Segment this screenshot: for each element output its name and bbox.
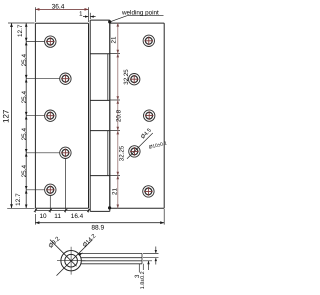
dim 1 line with outside arrows: [83, 16, 96, 18]
svg-text:20.8: 20.8: [116, 109, 123, 122]
svg-text:21: 21: [111, 36, 118, 43]
dim 36.4 arrows: [35, 8, 88, 11]
hole L3: [45, 110, 56, 121]
welding point leader: [110, 16, 164, 22]
hole row centerline 5: [26, 189, 44, 191]
svg-text:12.7: 12.7: [15, 193, 22, 206]
svg-text:welding point: welding point: [121, 9, 159, 16]
knuckle division 2: [90, 99, 110, 101]
knuckle segment 4 inset edge: [107, 131, 109, 176]
svg-text:11: 11: [54, 213, 61, 220]
bottom chain extension lines: [35, 159, 88, 213]
side leaf line top: [78, 252, 142, 254]
svg-text:32.25: 32.25: [123, 69, 130, 85]
svg-text:1.8±0.2: 1.8±0.2: [140, 271, 146, 289]
dim 36.4 line: [35, 8, 88, 10]
svg-text:21: 21: [112, 188, 119, 195]
svg-text:25.4: 25.4: [21, 91, 28, 104]
svg-text:88.9: 88.9: [91, 224, 104, 231]
dim 88.9 arrows: [35, 221, 164, 224]
hole L1: [45, 36, 56, 47]
knuckle division 4: [90, 175, 110, 177]
svg-text:127: 127: [2, 109, 11, 123]
hole row centerline 1: [26, 41, 44, 43]
dim 88.9 line: [35, 222, 164, 224]
hole row centerline 3: [26, 115, 44, 117]
hole L2: [60, 73, 71, 84]
hole row centerline 4: [26, 152, 60, 154]
hole R5: [143, 186, 154, 197]
side dim extension lines: [143, 253, 159, 260]
hole R3: [144, 110, 155, 121]
dim 1 extension: [89, 13, 91, 19]
dia 9.2 leader diagonal: [50, 240, 77, 267]
svg-text:25.4: 25.4: [21, 54, 28, 67]
left leaf: [35, 23, 88, 208]
right chain extension stubs: [110, 54, 120, 176]
knuckle division 3: [90, 130, 110, 132]
left chain arrows and ticks: [25, 23, 28, 208]
hole R1: [143, 35, 154, 46]
side leaf line second: [81, 257, 142, 259]
dia 14.2 leader arrow: [78, 253, 83, 257]
right chain dimension line: [117, 23, 119, 209]
hole R2: [129, 74, 140, 85]
hole L5: [45, 184, 56, 195]
side dim 3 line: [155, 247, 157, 265]
knuckle segment 2 inset edge: [107, 54, 109, 100]
dim 36.4 extension lines: [35, 7, 88, 22]
svg-text:36.4: 36.4: [52, 3, 65, 10]
side leaf line bottom: [81, 263, 142, 265]
svg-text:16.4: 16.4: [71, 213, 84, 220]
dim 127 extension lines: [7, 23, 34, 208]
side dim leader stubs: [139, 264, 143, 273]
side view inner circle: [65, 254, 78, 267]
left chain dimension line: [25, 23, 27, 208]
side dim 1.8 line: [148, 261, 150, 270]
right leaf: [110, 23, 164, 208]
svg-text:25.4: 25.4: [21, 165, 28, 178]
hole R4 with leader: [129, 146, 140, 157]
bottom chain dimension line: [35, 209, 88, 211]
knuckle barrel outline: [90, 20, 110, 211]
dim 127 line: [11, 23, 13, 208]
svg-text:12.7: 12.7: [17, 24, 24, 37]
svg-text:10: 10: [39, 213, 47, 220]
bottom chain ticks: [34, 209, 90, 212]
right chain arrows: [117, 23, 120, 209]
welding dot top: [108, 20, 111, 23]
hole L4: [60, 147, 71, 158]
dia 14.2 leader diagonal: [57, 240, 93, 276]
dim 88.9 extension lines: [35, 209, 164, 225]
svg-text:32.25: 32.25: [118, 145, 125, 161]
side view outer circle: [61, 251, 81, 271]
side leaf line third: [81, 260, 142, 262]
dim 127 arrows: [10, 23, 13, 208]
welding dot bottom: [108, 206, 111, 209]
side leaf end cap: [141, 253, 143, 263]
knuckle division 1: [90, 53, 110, 55]
side view crosshair: [57, 247, 86, 275]
svg-text:25.4: 25.4: [21, 128, 28, 141]
hole row centerline 2: [26, 78, 60, 80]
hole R4 diagonal leader line: [127, 133, 153, 159]
